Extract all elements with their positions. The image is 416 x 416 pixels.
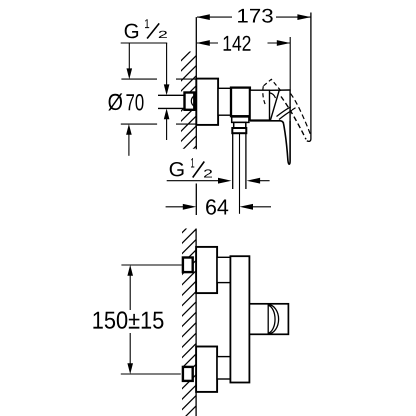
wall hatching (bottom view) [177,212,203,416]
dashed raised lever cap [264,79,281,91]
outlet ring [234,122,246,127]
hose G1/2 right-side arrow [258,180,270,182]
dimension 142 [197,42,290,44]
G1/2 leader underline [121,42,168,44]
dimension Ø70 upper extension line [121,78,157,80]
top escutcheon (bottom view) [196,247,217,293]
dashed raised lever blade [281,97,306,140]
handle divider line [267,305,269,334]
outlet step [232,117,249,123]
142 extension line [289,37,291,91]
dimension 64 [166,206,185,208]
dimension 150±15 lower extension line [121,373,181,375]
wall hatching (top view) [176,40,202,177]
supply pipe stub behind wall [158,95,184,108]
wall 64-dim extension line [195,184,197,216]
hose G1/2 leader with right arrow [167,180,220,182]
Ø70 upper arrow [128,43,130,70]
escutcheon (top view) [196,79,218,125]
dimension 173 [197,16,311,18]
S-union square top (bottom view) [183,258,193,273]
S-union square (top view) [185,93,195,110]
bottom escutcheon (bottom view) [196,347,217,392]
G1/2 arrow to pipe top [166,43,168,86]
lever cap diagonal parting line [271,90,280,120]
hose centerline / 64 extension [239,134,241,214]
union pipe-end arc [191,96,194,107]
lever cap fillet arc [270,93,276,98]
handle end cap arcs [268,305,278,334]
top shoulder stub [217,257,230,282]
Ø70 text [108,93,122,110]
150±15 text [93,311,163,328]
Ø70 lower arrow [128,134,130,156]
cartridge sleeve [250,90,269,120]
dimension 150±15 upper extension line [121,264,181,266]
body underside and lever blade [250,121,290,164]
wall face line (bottom view) [195,229,197,416]
lever cap top edge [270,89,291,91]
150±15 dimension line with arrows [129,276,131,311]
dimension Ø70 lower extension line [121,123,157,125]
S-union square bottom (bottom view) [183,367,193,381]
G1/2 arrow to pipe bottom [166,118,168,140]
handle boss (bottom view) [249,304,288,335]
shower hose lines [232,134,234,189]
173 extension line [307,13,311,142]
lever underside sweep curves [277,107,291,117]
label G 1/2 (top, supply thread) [125,24,138,39]
shoulder cylinder [218,88,231,115]
label G 1/2 (bottom, hose thread) [170,162,184,176]
lever cap front edge [289,90,291,122]
coupling nut [232,128,246,133]
mixer body slab (bottom view) [230,256,249,382]
mixer body (top view) [231,88,250,117]
bottom shoulder stub [217,357,230,379]
wall face line (top view) [195,17,197,149]
